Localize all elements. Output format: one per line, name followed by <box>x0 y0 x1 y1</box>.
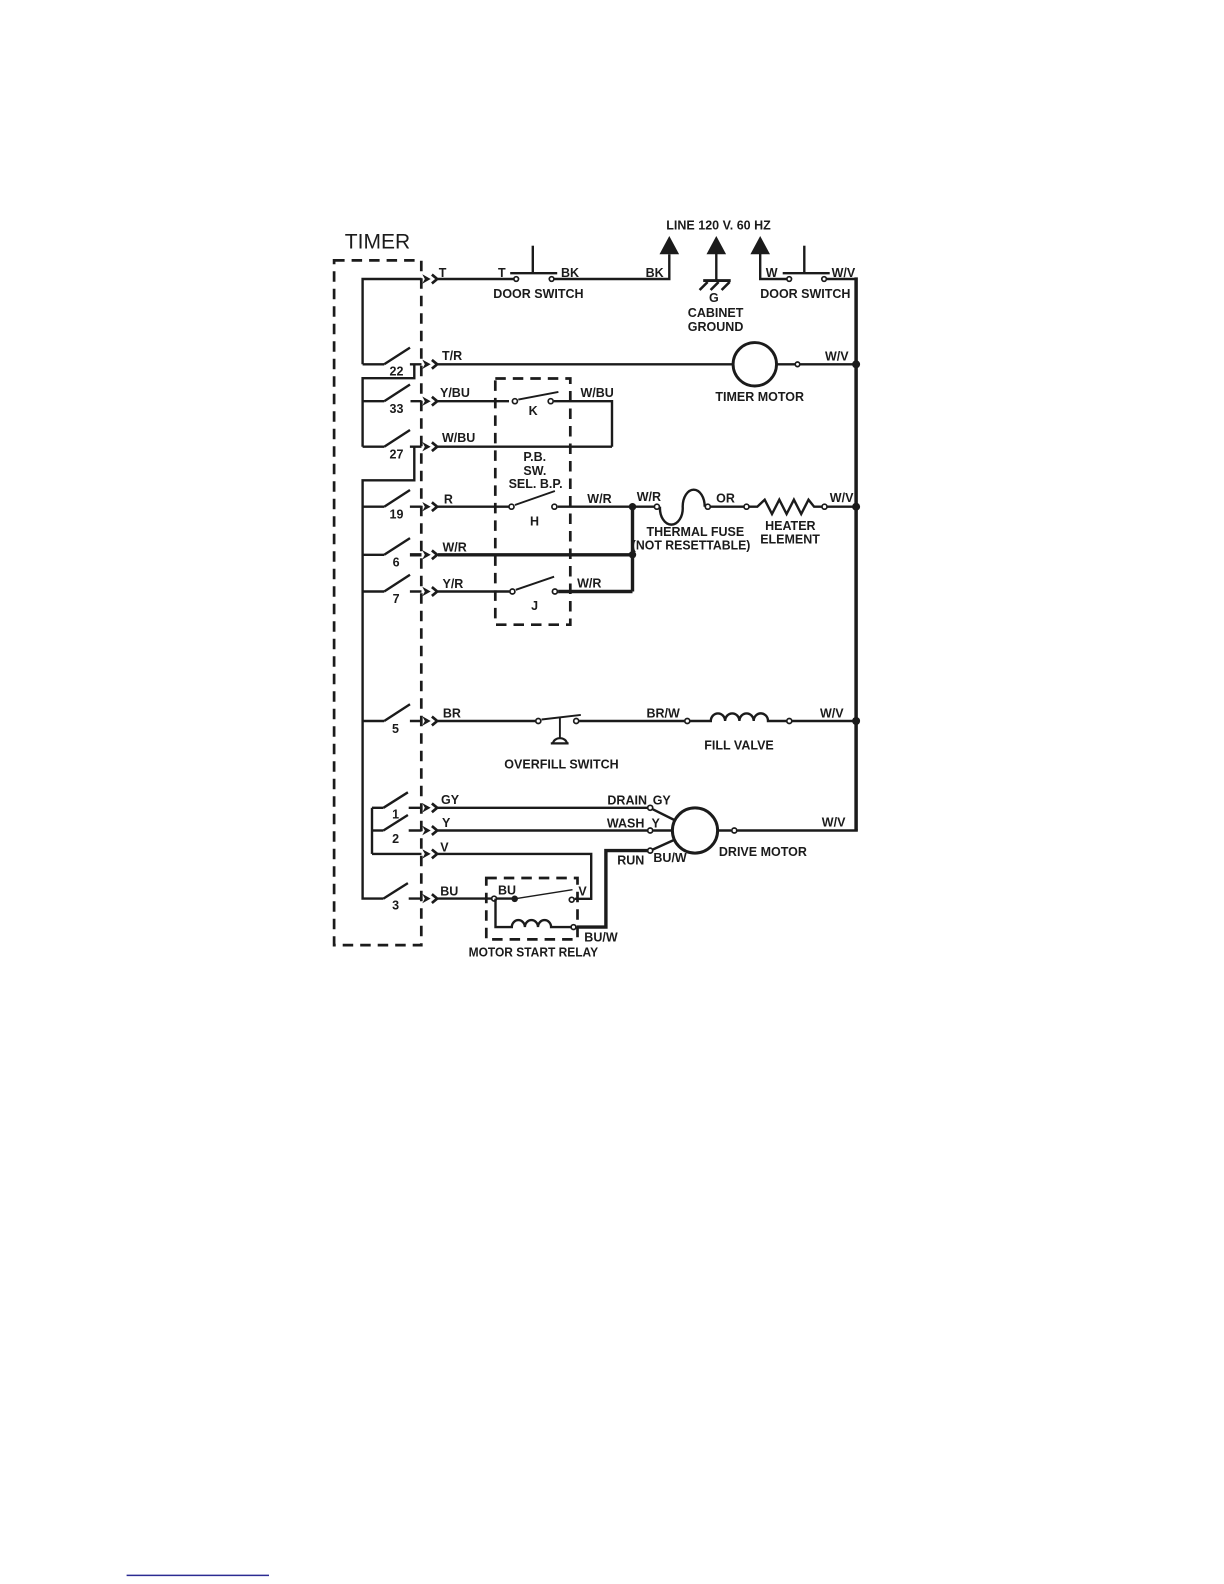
wire branch 27 output to lower contacts feed <box>363 447 415 899</box>
push-button switch K <box>512 399 517 404</box>
svg-text:W/V: W/V <box>830 491 854 505</box>
svg-text:DRAIN: DRAIN <box>607 793 647 807</box>
svg-text:K: K <box>529 404 538 418</box>
svg-text:T: T <box>439 266 447 280</box>
svg-text:TIMER MOTOR: TIMER MOTOR <box>715 390 804 404</box>
svg-text:DOOR SWITCH: DOOR SWITCH <box>760 287 850 301</box>
junction on bus <box>852 503 860 511</box>
terminal wash <box>648 828 653 833</box>
svg-text:BU/W: BU/W <box>584 931 618 945</box>
svg-text:P.B.: P.B. <box>523 450 546 464</box>
wire wash terminal to motor <box>653 829 673 831</box>
svg-text:V: V <box>440 840 449 854</box>
svg-text:W/R: W/R <box>577 577 601 591</box>
svg-text:H: H <box>530 514 539 528</box>
svg-text:3: 3 <box>392 898 399 912</box>
svg-text:W/BU: W/BU <box>442 431 475 445</box>
svg-text:TIMER: TIMER <box>345 231 410 254</box>
svg-text:GY: GY <box>441 793 460 807</box>
wire terminal to junction <box>497 897 515 899</box>
wire V from timer to relay <box>372 854 591 899</box>
junction on bus <box>852 717 860 725</box>
svg-text:BK: BK <box>561 266 579 280</box>
svg-text:W/V: W/V <box>822 816 846 830</box>
wire timer motor to bus <box>777 363 857 365</box>
svg-text:W/V: W/V <box>832 266 856 280</box>
wire T/R to timer motor <box>410 363 733 365</box>
relay switch left terminal <box>492 896 497 901</box>
wire W/BU from contact 27 to K return <box>410 446 612 448</box>
svg-text:CABINET: CABINET <box>688 306 744 320</box>
svg-text:W/V: W/V <box>820 706 844 720</box>
svg-text:Y/BU: Y/BU <box>440 386 470 400</box>
svg-text:ELEMENT: ELEMENT <box>760 533 820 547</box>
svg-text:HEATER: HEATER <box>765 519 815 533</box>
svg-text:BK: BK <box>646 266 664 280</box>
svg-text:W/BU: W/BU <box>581 386 614 400</box>
timer contact 7 <box>363 590 385 592</box>
svg-text:27: 27 <box>390 447 404 461</box>
svg-text:5: 5 <box>392 722 399 736</box>
junction W/R <box>629 551 636 558</box>
wire BU/W run to relay coil (heavy) <box>577 851 648 928</box>
svg-text:BU/W: BU/W <box>653 851 687 865</box>
overfill switch <box>536 719 541 724</box>
thermal fuse <box>654 504 659 509</box>
wire Y/R to switch J <box>410 590 510 592</box>
svg-text:LINE 120 V. 60 HZ: LINE 120 V. 60 HZ <box>666 219 771 233</box>
svg-text:BU: BU <box>498 884 516 898</box>
timer contact 1 <box>372 807 383 809</box>
svg-text:33: 33 <box>390 402 404 416</box>
motor start relay dashed box <box>486 878 577 939</box>
heater element (resistor) <box>749 500 821 514</box>
relay coil <box>496 899 571 928</box>
terminal drain <box>648 805 653 810</box>
svg-text:Y: Y <box>442 816 451 830</box>
timer contact 19 <box>363 506 385 508</box>
svg-text:W: W <box>766 266 778 280</box>
drive motor M2 <box>672 808 717 853</box>
wire BR/W to fill valve <box>579 720 684 722</box>
svg-text:22: 22 <box>390 365 404 379</box>
wire Y wash <box>409 829 648 831</box>
terminal drive motor right <box>732 828 737 833</box>
wire GY drain <box>409 807 648 809</box>
junction on bus <box>852 360 860 368</box>
door switch DS1 <box>514 277 519 282</box>
line arrow 3 (neutral) <box>750 236 770 254</box>
svg-text:Y: Y <box>652 817 661 831</box>
P.B. SW. SEL. B.P. dashed box <box>495 379 570 625</box>
svg-text:W/V: W/V <box>825 349 849 363</box>
footer rule <box>127 1574 269 1576</box>
svg-text:GROUND: GROUND <box>688 320 744 334</box>
svg-text:BU: BU <box>440 884 458 898</box>
svg-text:DOOR SWITCH: DOOR SWITCH <box>493 287 583 301</box>
relay switch right terminal <box>569 897 574 902</box>
svg-text:GY: GY <box>653 793 672 807</box>
timer contact 5 <box>363 720 385 722</box>
svg-text:7: 7 <box>393 592 400 606</box>
svg-text:T/R: T/R <box>442 349 462 363</box>
svg-text:THERMAL FUSE: THERMAL FUSE <box>647 525 745 539</box>
wire: top T line from timer to door switch S1 <box>363 279 422 364</box>
wire arrow3 to door switch DS2 <box>760 252 786 279</box>
wire W/R from contact 6 to junction (heavy) <box>410 553 633 556</box>
wire W/R from J up to junction (heavy) <box>558 590 632 593</box>
svg-text:2: 2 <box>392 832 399 846</box>
svg-text:DRIVE MOTOR: DRIVE MOTOR <box>719 845 807 859</box>
wire drain terminal to motor <box>653 809 676 820</box>
svg-text:J: J <box>531 599 538 613</box>
svg-text:19: 19 <box>390 507 404 521</box>
terminal run <box>648 848 653 853</box>
line arrow 1 (hot) <box>660 236 680 254</box>
timer contact 33 <box>363 400 385 402</box>
wire W/R from H to thermal fuse <box>558 506 654 508</box>
svg-text:T: T <box>498 266 506 280</box>
push-button switch H <box>509 504 514 509</box>
wire BK to line arrow <box>554 254 669 279</box>
svg-text:(NOT RESETTABLE): (NOT RESETTABLE) <box>632 539 751 553</box>
wire OR to heater element <box>711 506 744 508</box>
svg-text:W/R: W/R <box>443 540 467 554</box>
svg-text:G: G <box>709 291 719 305</box>
wire drive motor to bus <box>718 829 858 831</box>
wire fill valve to bus <box>792 720 856 722</box>
wire DS2 to right bus <box>827 278 856 280</box>
junction W/R node <box>629 503 636 510</box>
timer contact 22 <box>363 363 385 365</box>
terminal at timer motor <box>795 362 800 367</box>
fill valve coil <box>690 713 786 721</box>
svg-text:FILL VALVE: FILL VALVE <box>704 738 773 752</box>
svg-text:OVERFILL SWITCH: OVERFILL SWITCH <box>504 757 618 771</box>
timer contact 3 <box>383 883 408 899</box>
svg-text:RUN: RUN <box>617 854 644 868</box>
svg-text:SEL. B.P.: SEL. B.P. <box>509 477 563 491</box>
svg-text:SW.: SW. <box>523 464 546 478</box>
wire W/BU from K down to contact 27 line <box>554 401 612 447</box>
junction relay <box>511 896 518 903</box>
svg-text:V: V <box>578 885 587 899</box>
svg-text:BR/W: BR/W <box>647 706 681 720</box>
right supply bus wire <box>854 277 858 830</box>
wire BU to motor start relay <box>409 897 492 899</box>
svg-text:6: 6 <box>393 555 400 569</box>
timer contact 27 <box>363 446 385 448</box>
timer contact 2 <box>372 829 383 831</box>
svg-text:R: R <box>444 492 453 506</box>
timer motor M1 <box>733 343 776 386</box>
svg-text:OR: OR <box>716 491 735 505</box>
wire heater to bus <box>828 506 857 508</box>
svg-text:W/R: W/R <box>637 490 661 504</box>
wire heavy vertical W/R tie <box>631 507 634 592</box>
line arrow 2 (ground) <box>707 236 727 254</box>
wire branch 22 output to contacts 33/27 feed <box>363 364 415 446</box>
arrows harness exit T <box>422 274 437 283</box>
wire run terminal to motor <box>653 840 675 850</box>
wire R to switch H <box>410 506 509 508</box>
wire feed for contacts 1/2/V <box>371 808 373 854</box>
svg-text:1: 1 <box>392 808 399 822</box>
relay switch blade <box>515 890 573 899</box>
wire Y/BU to switch K <box>411 400 510 402</box>
cabinet ground symbol <box>703 279 731 282</box>
wire BR to overfill switch <box>410 720 536 722</box>
svg-text:W/R: W/R <box>587 492 611 506</box>
svg-text:MOTOR START RELAY: MOTOR START RELAY <box>469 946 599 960</box>
push-button switch J <box>510 589 515 594</box>
svg-text:BR: BR <box>443 706 461 720</box>
svg-text:Y/R: Y/R <box>443 577 464 591</box>
door switch DS2 <box>787 277 792 282</box>
timer contact 6 <box>363 554 385 556</box>
svg-text:WASH: WASH <box>607 817 645 831</box>
timer assembly dashed box <box>334 260 421 945</box>
